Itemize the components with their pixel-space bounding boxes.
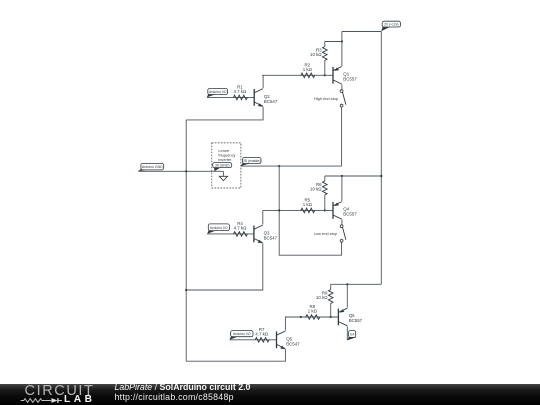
svg-text:BC547: BC547 [286, 341, 300, 346]
resistor R4 4.7 k&#937; [234, 221, 248, 236]
wire [330, 284, 332, 289]
junction R9-base [330, 316, 332, 318]
svg-text:BC557: BC557 [343, 76, 357, 81]
wire top +12v [342, 31, 381, 33]
svg-text:10 kΩ: 10 kΩ [316, 295, 328, 300]
svg-text:inverter: inverter [218, 157, 232, 162]
svg-text:20 (+12v): 20 (+12v) [384, 23, 398, 27]
wire Q2 collector up [262, 75, 264, 88]
svg-text:E4: E4 [350, 332, 354, 336]
wire Q2 emitter to rail [186, 107, 263, 120]
switch low end stop [314, 225, 346, 242]
flag 39 (GND) [213, 163, 232, 172]
wire Q1 base [262, 74, 333, 76]
junction R6-base [324, 209, 326, 211]
wire enable net [241, 165, 342, 167]
wire [341, 32, 343, 42]
svg-text:Arduino I/O: Arduino I/O [209, 90, 227, 94]
wire +12v mid [325, 175, 382, 177]
transistor Q3 BC547 NPN [254, 225, 278, 243]
junction GND-rail [185, 170, 187, 172]
flag 20 (+12v) supply [381, 21, 400, 31]
svg-text:1 kΩ: 1 kΩ [303, 202, 313, 207]
label Lenze frequency inverter [218, 148, 235, 162]
svg-text:4.7 kΩ: 4.7 kΩ [234, 226, 248, 231]
transistor Q6 BC557 PNP [338, 308, 362, 326]
transistor Q1 BC557 PNP [333, 67, 357, 85]
transistor Q5 BC547 NPN [277, 331, 301, 349]
wire Q3 emitter to rail [186, 243, 263, 290]
svg-text:High end stop: High end stop [314, 96, 338, 101]
wire right +12v rail [380, 32, 382, 285]
svg-text:4.7 kΩ: 4.7 kΩ [255, 331, 269, 336]
junction rail [185, 289, 187, 291]
resistor R6 10 k&#937; [310, 181, 327, 195]
resistor R9 10 k&#937; [316, 290, 333, 304]
wire Q1 emitter [341, 42, 343, 67]
svg-text:BC547: BC547 [264, 99, 278, 104]
resistor R8 1 k&#937; [306, 304, 320, 319]
junction rail mid [380, 175, 382, 177]
flag Arduino I/O top [207, 89, 228, 98]
wire R3 top [325, 41, 342, 43]
svg-text:39 (GND): 39 (GND) [215, 164, 230, 168]
wire Q4 collector [341, 220, 343, 225]
svg-text:Arduino I/O: Arduino I/O [210, 226, 228, 230]
junction Q4 emitter [341, 175, 343, 177]
svg-text:1 kΩ: 1 kΩ [308, 309, 318, 314]
flag Arduino I/O bottom [230, 331, 253, 340]
transistor Q4 BC557 PNP [333, 202, 357, 220]
wire Q5 emitter to rail [186, 349, 285, 361]
resistor R1 4.7 k&#937; [233, 84, 247, 99]
svg-text:28 (enable): 28 (enable) [243, 159, 260, 163]
wire Q6 collector [346, 326, 348, 340]
resistor R2 1 k&#937; [301, 62, 315, 77]
wire R7 base [230, 339, 277, 341]
wire Q4 base [263, 209, 333, 211]
wire Q5 collector up [285, 317, 300, 331]
resistor R3 10 k&#937; [310, 47, 327, 61]
wire GND [138, 170, 223, 172]
wire +12v bottom [331, 283, 382, 285]
svg-text:BC557: BC557 [343, 211, 357, 216]
svg-text:BC547: BC547 [264, 236, 278, 241]
wire Q4 emitter [341, 176, 343, 201]
junction Q5 collector [300, 316, 302, 318]
wire Q6 base [301, 316, 339, 318]
wire [324, 61, 326, 76]
wire [324, 42, 326, 47]
wire Q6 emitter [346, 284, 348, 307]
svg-text:Arduino I/O: Arduino I/O [233, 332, 251, 336]
junction Q6 emitter [346, 283, 348, 285]
resistor R5 1 k&#937; [301, 197, 315, 212]
resistor R7 4.7 k&#937; [255, 327, 269, 342]
ground symbol [219, 171, 227, 180]
svg-text:10 kΩ: 10 kΩ [310, 52, 322, 57]
flag Arduino I/O middle [207, 224, 229, 234]
wire Q3 collector up [262, 210, 264, 224]
wire R4 base [207, 233, 254, 235]
wire [324, 176, 326, 181]
wire low switch return [279, 166, 341, 255]
svg-text:BC557: BC557 [349, 318, 363, 323]
flag E4 output [347, 331, 357, 341]
flag 28 (enable) [241, 158, 261, 167]
junction enable [278, 165, 280, 167]
wire left GND rail [185, 120, 187, 361]
dashed box Lenze frequency inverter [212, 143, 241, 188]
svg-text:Low end stop: Low end stop [314, 231, 337, 236]
flag Arduino GND [138, 163, 164, 171]
wire [324, 195, 326, 210]
junction [341, 40, 343, 42]
transistor Q2 BC547 NPN [254, 89, 278, 107]
svg-text:4.7 kΩ: 4.7 kΩ [233, 89, 247, 94]
wire R1 base [207, 96, 254, 98]
junction enable-collector [278, 209, 280, 211]
junction R3-base [324, 74, 326, 76]
wire [330, 304, 332, 318]
wire Q1 collector [341, 85, 343, 90]
svg-text:10 kΩ: 10 kΩ [310, 187, 322, 192]
wire switch to enable [341, 107, 343, 166]
svg-text:1 kΩ: 1 kΩ [303, 67, 313, 72]
switch high end stop [314, 90, 346, 107]
svg-text:Arduino GND: Arduino GND [142, 165, 163, 169]
